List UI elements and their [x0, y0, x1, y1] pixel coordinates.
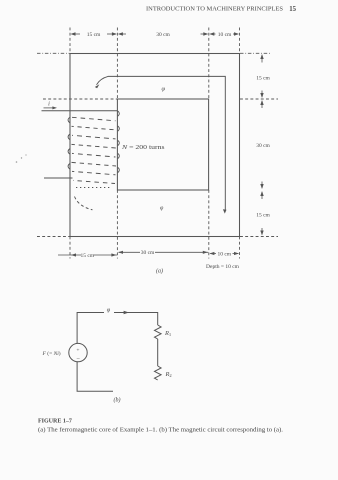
svg-text:FIGURE 1–7: FIGURE 1–7: [38, 419, 72, 425]
svg-text:Depth = 10 cm: Depth = 10 cm: [206, 264, 240, 270]
svg-text:(a) The ferromagnetic core of: (a) The ferromagnetic core of Example 1–…: [38, 427, 283, 434]
svg-text:30 cm: 30 cm: [141, 250, 155, 256]
svg-text:i: i: [48, 100, 50, 107]
svg-text:φ: φ: [162, 86, 166, 93]
svg-text:30 cm: 30 cm: [156, 32, 170, 38]
svg-text:+: +: [76, 347, 79, 353]
svg-text:10 cm: 10 cm: [217, 252, 231, 258]
svg-text:(b): (b): [114, 397, 121, 404]
svg-text:F (= Ni): F (= Ni): [42, 350, 61, 357]
svg-text:φ: φ: [107, 307, 111, 314]
svg-text:10 cm: 10 cm: [218, 32, 232, 38]
svg-text:30 cm: 30 cm: [256, 143, 270, 149]
svg-text:φ: φ: [160, 206, 164, 212]
svg-text:INTRODUCTION TO MACHINERY PRIN: INTRODUCTION TO MACHINERY PRINCIPLES: [146, 7, 284, 13]
svg-text:15 cm: 15 cm: [87, 32, 101, 38]
svg-text:15: 15: [289, 6, 296, 13]
svg-text:15 cm: 15 cm: [256, 213, 270, 219]
svg-text:15 cm: 15 cm: [256, 76, 270, 82]
svg-text:(a): (a): [156, 268, 163, 275]
svg-text:R1: R1: [164, 330, 172, 337]
svg-text:−: −: [76, 356, 80, 363]
svg-text:15 cm: 15 cm: [80, 253, 94, 259]
svg-text:R2: R2: [165, 371, 173, 378]
svg-text:N = 200 turns: N = 200 turns: [121, 145, 166, 151]
